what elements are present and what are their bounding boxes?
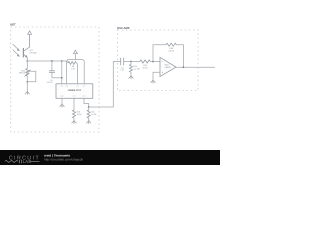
capacitor C5 — [51, 60, 53, 62]
svg-text:SFH300: SFH300 — [30, 52, 37, 54]
svg-text:1 kΩ: 1 kΩ — [71, 68, 75, 70]
ground R10 — [72, 121, 77, 124]
svg-text:R06: R06 — [169, 47, 173, 49]
wire IC ground pin — [61, 98, 63, 104]
svg-text:10 kΩ: 10 kΩ — [142, 67, 147, 69]
light arrows into phototransistor — [13, 44, 19, 55]
node feedback tap — [152, 61, 154, 63]
power supply VCC arrow V2 — [74, 54, 76, 60]
phototransistor Q1 — [22, 48, 24, 57]
svg-text:C5: C5 — [50, 79, 53, 81]
footer bar — [0, 150, 220, 165]
svg-text:LAB: LAB — [23, 160, 32, 165]
wire op-amp output — [176, 66, 215, 68]
node output feedback junction — [183, 66, 185, 68]
node cap bottom junction — [61, 77, 63, 79]
ground IC — [60, 104, 65, 107]
wire VCC bridge to pin4 — [67, 60, 85, 84]
ground op-amp plus — [151, 80, 156, 83]
logo wire — [31, 160, 40, 162]
node R15 top — [130, 61, 132, 63]
resistor R6 — [67, 61, 68, 63]
svg-text:10 kΩ: 10 kΩ — [91, 113, 96, 115]
resistor R15 — [130, 62, 132, 65]
detector block dashed boundary — [11, 27, 99, 132]
svg-text:R10: R10 — [77, 111, 81, 113]
svg-text:470 nF: 470 nF — [47, 82, 53, 84]
svg-text:DET: DET — [10, 23, 15, 26]
svg-text:390 kΩ: 390 kΩ — [19, 72, 25, 74]
svg-text:LM555 VCO: LM555 VCO — [68, 89, 81, 92]
wire pot to ground — [26, 76, 28, 92]
wire down to IC pin1 — [61, 61, 63, 84]
resistor R10 — [73, 98, 75, 110]
osc amp dashed boundary — [117, 30, 198, 91]
svg-text:DIS: DIS — [76, 85, 78, 87]
node pot bottom — [26, 81, 28, 83]
logo capacitor — [20, 160, 22, 163]
wire detector output to osc amp — [89, 62, 121, 108]
svg-text:1.1 MΩ: 1.1 MΩ — [134, 68, 140, 70]
wire C2 to node — [124, 61, 131, 63]
resistor R17 feedback — [166, 43, 176, 46]
wire feedback loop — [153, 45, 166, 62]
resistor R11 — [88, 107, 90, 110]
IC U1 LM555 — [56, 84, 93, 99]
svg-text:GND: GND — [60, 95, 63, 97]
svg-text:C2: C2 — [121, 67, 124, 69]
svg-text:R11: R11 — [91, 111, 94, 113]
node output junction — [88, 106, 90, 108]
signal wire to IC — [27, 60, 62, 62]
svg-text:3.3 kΩ: 3.3 kΩ — [168, 50, 174, 52]
svg-text:http://circuitlab.com/c/taay3n: http://circuitlab.com/c/taay3n — [44, 158, 83, 161]
svg-text:VCC: VCC — [83, 85, 86, 87]
potentiometer R5 — [26, 61, 28, 69]
svg-text:LM741: LM741 — [165, 67, 171, 69]
logo resistor squiggle — [5, 160, 18, 162]
svg-text:TRG: TRG — [65, 85, 68, 87]
svg-text:10 kΩ: 10 kΩ — [77, 113, 82, 115]
svg-text:1 µF: 1 µF — [120, 69, 124, 71]
ground pot — [25, 92, 30, 95]
svg-text:R6: R6 — [72, 65, 75, 67]
wire collector to VCC — [29, 34, 31, 47]
resistor R9 — [131, 61, 140, 63]
node wire to pin1 — [61, 60, 63, 62]
svg-text:R15: R15 — [134, 65, 138, 67]
node emitter junction — [26, 60, 28, 62]
wire to R6 node — [62, 60, 67, 62]
capacitor C2 — [121, 58, 124, 65]
ground R11 — [86, 121, 91, 124]
svg-text:+: + — [161, 71, 163, 75]
wire emitter down — [26, 58, 28, 61]
wire IC out pin step — [84, 98, 89, 107]
wiper loop wire — [27, 71, 36, 82]
svg-text:THR: THR — [73, 95, 76, 97]
svg-text:sreid | Thermomin: sreid | Thermomin — [44, 154, 70, 157]
svg-text:OUT: OUT — [83, 95, 86, 97]
svg-text:−: − — [161, 60, 163, 64]
wire down to IC pin2 — [66, 61, 68, 84]
svg-text:QT1: QT1 — [30, 49, 34, 51]
power supply VCC arrow V1 — [29, 34, 31, 47]
wire op-amp plus input — [153, 72, 160, 80]
svg-text:OSC AMP: OSC AMP — [117, 27, 130, 30]
svg-text:R16: R16 — [143, 64, 147, 66]
svg-text:RST: RST — [60, 85, 63, 87]
ground R15 — [129, 76, 134, 79]
op-amp U2 — [160, 57, 176, 76]
wire cap bottom — [52, 77, 62, 79]
svg-text:OA1: OA1 — [165, 64, 169, 66]
svg-text:R5A: R5A — [21, 70, 25, 72]
